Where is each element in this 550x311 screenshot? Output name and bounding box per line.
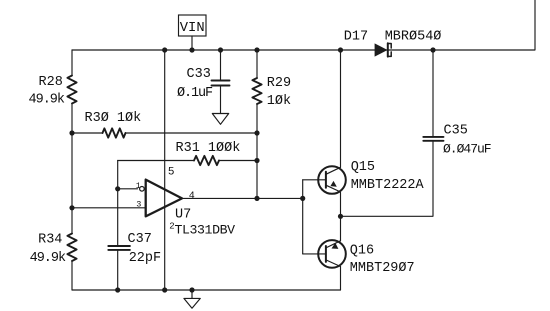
svg-text:VIN: VIN — [180, 21, 205, 36]
svg-text:Ø.Ø47uF: Ø.Ø47uF — [443, 141, 491, 156]
svg-text:2: 2 — [169, 221, 174, 231]
svg-text:R3Ø 1Øk: R3Ø 1Øk — [85, 111, 142, 126]
svg-text:Ø.1uF: Ø.1uF — [177, 86, 213, 101]
svg-text:C35: C35 — [444, 123, 468, 138]
svg-text:D17: D17 — [344, 30, 368, 45]
svg-text:Q16: Q16 — [350, 243, 374, 258]
svg-text:C33: C33 — [187, 67, 211, 82]
svg-text:C37: C37 — [128, 232, 152, 247]
svg-text:49.9k: 49.9k — [30, 251, 66, 266]
svg-text:MBRØ54Ø: MBRØ54Ø — [385, 30, 442, 45]
svg-text:R29: R29 — [267, 76, 291, 91]
svg-text:1Øk: 1Øk — [267, 94, 291, 109]
svg-text:U7: U7 — [175, 207, 191, 222]
svg-text:TL331DBV: TL331DBV — [175, 223, 236, 238]
svg-text:R28: R28 — [39, 75, 63, 90]
svg-text:Q15: Q15 — [351, 160, 375, 175]
svg-text:4: 4 — [189, 191, 195, 202]
svg-text:1: 1 — [136, 181, 141, 191]
svg-text:MMBT29Ø7: MMBT29Ø7 — [350, 261, 415, 276]
svg-text:5: 5 — [168, 167, 175, 179]
svg-text:49.9k: 49.9k — [29, 92, 65, 107]
svg-text:MMBT2222A: MMBT2222A — [351, 178, 425, 193]
svg-text:R34: R34 — [38, 232, 62, 247]
svg-text:3: 3 — [136, 200, 141, 210]
svg-text:22pF: 22pF — [129, 251, 161, 266]
svg-text:R31 1ØØk: R31 1ØØk — [176, 141, 241, 156]
